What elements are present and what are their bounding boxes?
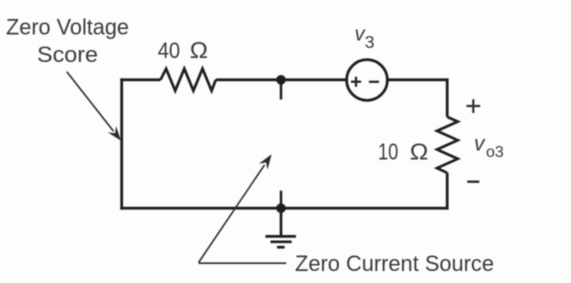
svg-text:10: 10 [378,139,398,165]
svg-text:v: v [474,133,486,156]
wire right lower [446,173,449,210]
polarity minus for vo3 [467,180,479,182]
label vo3 [474,133,504,162]
annotation arrow to open stub (zero current source) [199,154,287,263]
wire left [120,78,123,209]
resistor R1 40 ohm [161,69,216,91]
annotation arrow to left wire [67,72,121,141]
svg-text:Score: Score [37,42,98,67]
open stub of removed current source (top) [280,80,283,100]
svg-text:Ω: Ω [190,37,208,63]
svg-text:40: 40 [158,38,180,63]
wire bottom [120,207,448,210]
svg-text:3: 3 [365,32,375,52]
polarity plus for vo3 [466,99,480,113]
svg-text:Zero Voltage: Zero Voltage [6,15,129,40]
wire top right segment [388,78,449,81]
resistor R2 10 ohm (vertical) [437,117,458,173]
svg-text:Ω: Ω [410,139,429,165]
node A junction dot [276,75,286,85]
ground symbol [265,208,296,247]
svg-text:o3: o3 [486,144,504,161]
label v3 [355,24,375,52]
wire top middle segment [216,78,347,81]
svg-text:Zero Current Source: Zero Current Source [295,251,494,276]
voltage source U1 v3 [347,60,388,101]
value label 40 ohm [158,37,208,63]
open stub of removed current source (bottom) [280,191,283,209]
wire right upper [446,78,449,117]
wire top left segment [120,78,160,81]
label Zero Voltage Score [6,15,129,67]
value label 10 ohm [378,139,428,165]
node B junction dot (ground node) [276,203,286,213]
